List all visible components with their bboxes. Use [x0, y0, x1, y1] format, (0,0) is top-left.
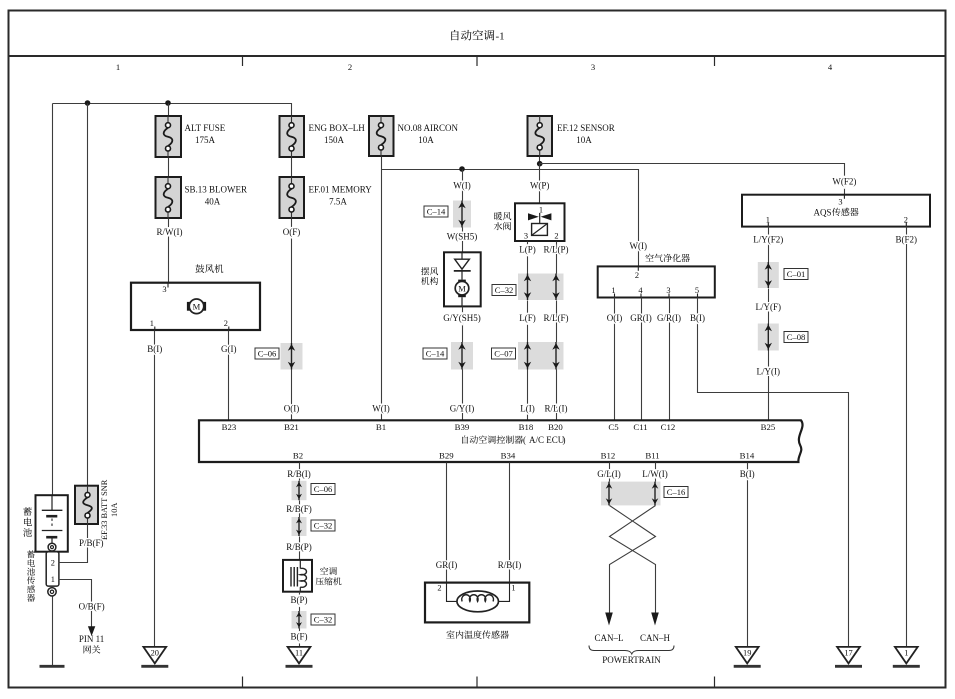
svg-text:B34: B34 [501, 450, 516, 460]
wire pin5 to ground 17, net B(I) [698, 298, 849, 647]
label net W(F2) [832, 177, 856, 187]
svg-text:L/W(I): L/W(I) [642, 469, 667, 479]
title separator line [9, 55, 946, 57]
svg-text:B(I): B(I) [740, 469, 755, 479]
ECU top pin B20 [548, 422, 563, 432]
wire: battery feed vertical (left) [52, 104, 54, 496]
svg-text:O/B(F): O/B(F) [79, 601, 105, 611]
wire ECU B29 to temp sensor, net GR(I) [446, 463, 448, 583]
label net B(F2) [896, 235, 918, 245]
wire sensor pin 1 to gateway, net O/B(F) [59, 580, 92, 627]
label box C-32 [311, 520, 335, 531]
wire C-08 to ECU pin B25, net L/Y(I) [768, 351, 770, 421]
svg-text:R/L(I): R/L(I) [545, 404, 568, 414]
label box C-01 [784, 269, 808, 280]
svg-text:10A: 10A [576, 135, 592, 145]
battery sensor 蓄电池传感器 body [46, 552, 59, 586]
pin 5 air purifier [695, 286, 699, 298]
svg-text:G/Y(I): G/Y(I) [450, 404, 475, 414]
label net L(I) [520, 404, 535, 414]
label net L/Y(F2) [753, 235, 783, 245]
chassis ground bar (battery) [40, 665, 65, 668]
wire ENG BOX-LH to EF.01 MEMORY [291, 158, 293, 178]
svg-text:C–16: C–16 [667, 487, 686, 497]
svg-text:C–08: C–08 [787, 332, 806, 342]
label box C-16 [664, 487, 688, 498]
pin 1 AQS sensor [766, 215, 770, 226]
wire pin1 to ECU C5, net O(I) [614, 298, 616, 421]
svg-text:2: 2 [904, 215, 908, 224]
wire: branch down to ALT FUSE [168, 104, 170, 117]
svg-text:7.5A: 7.5A [329, 197, 347, 207]
label CAN-H [640, 633, 671, 643]
label ALT FUSE 175A [185, 123, 226, 145]
svg-text:3: 3 [666, 286, 670, 295]
svg-text:3: 3 [162, 285, 166, 294]
label net L/Y(I) [757, 366, 781, 376]
svg-text:L(F): L(F) [519, 313, 536, 323]
fuse EF.12 SENSOR 10A [528, 116, 553, 156]
svg-text:R/B(I): R/B(I) [287, 469, 311, 479]
svg-text:-1: -1 [496, 31, 505, 43]
junction dot swing mechanism branch [459, 166, 465, 172]
connector C-06 (blower circuit) [281, 343, 303, 370]
connector C-32 (compressor upper) [292, 517, 307, 536]
label 蓄电池 (vertical) [23, 507, 32, 537]
ECU top pin B23 [222, 422, 237, 432]
svg-text:W(SH5): W(SH5) [447, 232, 478, 242]
svg-text:B14: B14 [740, 450, 755, 460]
svg-text:ALT FUSE: ALT FUSE [185, 123, 226, 133]
svg-text:W(I): W(I) [453, 180, 471, 190]
label net W(P) [530, 180, 550, 190]
svg-text:POWERTRAIN: POWERTRAIN [602, 655, 661, 665]
ECU top pin B21 [284, 422, 299, 432]
svg-text:L(I): L(I) [520, 404, 535, 414]
pin 3 air purifier [666, 286, 670, 298]
label net G/Y(SH5) [443, 313, 481, 323]
temp sensor pin 1 [511, 583, 515, 592]
svg-text:B(F2): B(F2) [896, 235, 918, 245]
label NO.08 AIRCON 10A [398, 123, 459, 145]
label POWERTRAIN [602, 655, 661, 665]
label box C-14 lower [423, 348, 447, 359]
ECU bottom pin B29 [439, 450, 454, 460]
svg-text:B20: B20 [548, 422, 563, 432]
thermistor symbol (ellipse with coil) [457, 591, 499, 612]
connector C-01 [758, 262, 779, 288]
wire bus to AQS sensor, net W(F2) [540, 164, 845, 195]
wire valve pin2 to C-32, net R/L(P) [556, 242, 558, 274]
label net L/W(I) [642, 469, 667, 479]
svg-text:B18: B18 [519, 422, 534, 432]
wire blower pin2 to ECU B23, net G(I) [228, 331, 230, 421]
label ENG BOX-LH 150A [309, 123, 366, 145]
svg-text:R/B(P): R/B(P) [286, 542, 312, 552]
wire to C-07, net L(F) [527, 301, 529, 343]
svg-text:ENG BOX–LH: ENG BOX–LH [309, 123, 366, 133]
connector C-06 (compressor) [292, 481, 307, 500]
ECU bottom pin B2 [293, 450, 303, 460]
fuse ALT FUSE 175A [156, 116, 182, 157]
svg-text:O(F): O(F) [283, 227, 301, 237]
label net R/W(I) [157, 227, 183, 237]
svg-text:P/B(F): P/B(F) [79, 538, 104, 548]
wire ECU B11 to C-16, net L/W(I) [655, 463, 657, 482]
ECU bottom pin B12 [601, 450, 616, 460]
label net L(P) [519, 244, 536, 254]
connector C-14 lower [451, 342, 473, 370]
label net R/B(I) [287, 469, 311, 479]
connector C-14 (swing mechanism) [453, 201, 471, 228]
svg-text:C–14: C–14 [426, 348, 445, 358]
wire C-14 to swing mechanism, net W(SH5) [462, 228, 464, 253]
label net R/B(P) [286, 542, 312, 552]
svg-text:R/L(F): R/L(F) [543, 313, 568, 323]
svg-text:G/L(I): G/L(I) [597, 469, 621, 479]
motor M blower [187, 299, 206, 314]
ECU top pin B39 [455, 422, 470, 432]
svg-text:B2: B2 [293, 450, 303, 460]
label net R/L(F) [543, 313, 568, 323]
label net G/Y(I) [450, 404, 475, 414]
ECU bottom pin B11 [645, 450, 659, 460]
wire pin3 to ECU C12, net G/R(I) [669, 298, 671, 421]
svg-text:EF.01 MEMORY: EF.01 MEMORY [309, 185, 373, 195]
label 空调压缩机 [316, 567, 342, 585]
fuse SB.13 BLOWER 40A [156, 177, 182, 218]
component 暖风水阀 heater water valve box [515, 203, 565, 241]
wire C-14 to ECU pin B39, net G/Y(I) [462, 370, 464, 421]
connector C-08 [758, 324, 779, 351]
svg-text:G/Y(SH5): G/Y(SH5) [443, 313, 481, 323]
wire EF.12 SENSOR to junction [539, 157, 541, 164]
ground 19 [734, 647, 761, 666]
label net W(I) air purifier feed [630, 241, 648, 251]
wire down to connector C-14, net W(I) [462, 170, 464, 201]
svg-text:2: 2 [437, 583, 441, 592]
label net B(I) [740, 469, 755, 479]
label net G/L(I) [597, 469, 621, 479]
ground 1 [893, 647, 920, 666]
label net B(I) [690, 313, 705, 323]
wire EF.33 to sensor pin 2, net P/B(F) [59, 525, 88, 563]
valve symbol (bowtie) [528, 213, 551, 224]
svg-text:10A: 10A [110, 503, 119, 517]
svg-text:R/B(F): R/B(F) [286, 504, 312, 514]
svg-text:C–32: C–32 [495, 285, 514, 295]
ground 17 [835, 647, 862, 666]
ECU bottom pin B34 [501, 450, 516, 460]
label 摆风机构 [421, 267, 438, 285]
svg-text:B21: B21 [284, 422, 299, 432]
component 室内温度传感器 room temperature sensor box [425, 583, 529, 623]
wire branch bus to air purifier [382, 170, 639, 267]
svg-text:O(I): O(I) [607, 313, 623, 323]
pin 2 AQS sensor [904, 215, 908, 226]
column number 1 [116, 62, 120, 72]
svg-text:GR(I): GR(I) [436, 560, 458, 570]
svg-text:AQS: AQS [814, 207, 832, 217]
wire C-07 to ECU pin B20, net R/L(I) [556, 370, 558, 421]
svg-text:1: 1 [539, 205, 543, 214]
label box C-07 [492, 348, 516, 359]
svg-text:C–32: C–32 [314, 520, 333, 530]
arrow to PIN 11 gateway [88, 626, 95, 636]
label 暖风水阀 [494, 212, 511, 230]
battery terminal (top of sensor) [48, 543, 56, 551]
title 自动空调-1 [451, 30, 504, 43]
wire NO.08 AIRCON down to ECU pin B1, net W(I) [381, 157, 383, 421]
column number 2 [348, 62, 352, 72]
battery sensor pin 1 [51, 575, 55, 584]
svg-text:): ) [563, 435, 566, 445]
label net R/B(F) [286, 504, 312, 514]
label EF.12 SENSOR 10A [557, 123, 615, 145]
wire swing mechanism to C-14 lower, net G/Y(SH5) [462, 307, 464, 343]
svg-text:O(I): O(I) [284, 404, 300, 414]
label net W(SH5) [447, 232, 478, 242]
brace under CAN labels [589, 646, 674, 655]
pin 1 blower [150, 319, 155, 330]
svg-text:3: 3 [838, 197, 842, 206]
svg-text:1: 1 [611, 286, 615, 295]
svg-text:G(I): G(I) [221, 344, 237, 354]
svg-text:5: 5 [695, 286, 699, 295]
ECU top pin B25 [761, 422, 776, 432]
svg-text:C5: C5 [608, 422, 619, 432]
label box C-14 [424, 206, 448, 217]
label net O(I) [607, 313, 623, 323]
motor M inside swing mechanism [455, 280, 469, 307]
fuse ENG BOX-LH 150A [280, 116, 305, 157]
svg-text:4: 4 [828, 62, 833, 72]
label net P/B(F) [79, 538, 104, 548]
component 摆风机构 swing mechanism box [444, 252, 481, 306]
label PIN 11 网关 [79, 634, 104, 654]
wire AQS pin1 to C-01, net L/Y(F2) [768, 227, 770, 263]
connector C-16 [601, 482, 661, 506]
svg-text:1: 1 [51, 575, 55, 584]
svg-text:B(I): B(I) [690, 313, 705, 323]
svg-text:19: 19 [743, 649, 751, 658]
label SB.13 BLOWER 40A [185, 185, 248, 207]
wire ECU B2 to C-06, net R/B(I) [299, 463, 301, 481]
svg-text:B11: B11 [645, 450, 659, 460]
junction dot at ALT FUSE branch [165, 100, 171, 106]
arrow CAN-H [651, 613, 659, 626]
label net L/Y(F) [756, 302, 782, 312]
ECU top pin C12 [661, 422, 676, 432]
wire C-01 to C-08, net L/Y(F) [768, 289, 770, 324]
svg-text:M: M [193, 302, 201, 312]
label 鼓风机 blower [195, 264, 223, 273]
label net R/L(I) [545, 404, 568, 414]
svg-text:150A: 150A [324, 135, 345, 145]
ECU top pin C5 [608, 422, 619, 432]
svg-text:CAN–L: CAN–L [595, 633, 624, 643]
compressor clutch symbol [291, 560, 306, 592]
svg-text:2: 2 [554, 232, 558, 241]
wire: branch down to EF.33 fuse [87, 104, 89, 486]
svg-text:C12: C12 [661, 422, 676, 432]
junction dot at battery sensor fuse branch [85, 100, 91, 106]
wire SB.13 BLOWER to blower motor, net R/W(I) [168, 219, 170, 283]
component 空调压缩机 A/C compressor box [283, 560, 312, 592]
svg-text:GR(I): GR(I) [630, 313, 652, 323]
pin 3 AQS sensor [838, 195, 844, 207]
label box C-08 [784, 332, 808, 343]
wire blower pin1 to ground 20, net B(I) [154, 331, 156, 647]
connector C-32 (compressor lower) [292, 611, 307, 629]
svg-text:EF.33 BATT SNR: EF.33 BATT SNR [100, 479, 109, 540]
wire EF.01 MEMORY down to connector C-06, net O(F) [291, 219, 293, 344]
wire down to heater valve, net W(P) [539, 164, 541, 204]
svg-text:B(P): B(P) [290, 595, 307, 605]
label net W(I) at B1 [372, 404, 390, 414]
svg-text:PIN 11: PIN 11 [79, 634, 104, 644]
component AQS传感器 AQS sensor box [742, 195, 930, 227]
component blower motor box [131, 283, 260, 330]
wire C-32 to ground 11, net B(F) [299, 629, 301, 647]
column number 3 [591, 62, 595, 72]
label net R/B(I) [498, 560, 522, 570]
svg-text:3: 3 [591, 62, 595, 72]
svg-text:G/R(I): G/R(I) [657, 313, 681, 323]
label net W(I) [453, 180, 471, 190]
pin 2 heater valve [554, 232, 558, 241]
fuse EF.01 MEMORY 7.5A [280, 177, 305, 218]
svg-text:C–32: C–32 [314, 614, 333, 624]
svg-text:B(F): B(F) [290, 632, 307, 642]
svg-text:SB.13 BLOWER: SB.13 BLOWER [185, 185, 248, 195]
label net O(F) [283, 227, 301, 237]
label net GR(I) [630, 313, 652, 323]
label 自动空调控制器（A/C ECU） [462, 435, 565, 445]
wire compressor to C-32, net B(P) [299, 592, 301, 612]
pin 1 air purifier [611, 286, 615, 298]
wire ECU B34 to temp sensor, net R/B(I) [509, 463, 511, 583]
wire valve pin3 to C-32, net L(P) [527, 242, 529, 274]
pin 3 blower [162, 283, 168, 294]
svg-text:1: 1 [511, 583, 515, 592]
wire C-06 to ECU pin B21, net O(I) [291, 370, 293, 421]
battery cell symbol [42, 495, 63, 543]
svg-text:11: 11 [295, 649, 303, 658]
diode inside swing mechanism [454, 252, 471, 279]
label net G/R(I) [657, 313, 681, 323]
svg-text:R/B(I): R/B(I) [498, 560, 522, 570]
svg-text:175A: 175A [195, 135, 216, 145]
svg-text:A/C ECU: A/C ECU [529, 435, 565, 445]
svg-text:B23: B23 [222, 422, 237, 432]
svg-text:L/Y(F2): L/Y(F2) [753, 235, 783, 245]
svg-text:R/W(I): R/W(I) [157, 227, 183, 237]
svg-text:L/Y(I): L/Y(I) [757, 366, 781, 376]
svg-text:C–14: C–14 [427, 206, 446, 216]
pin 2 blower [224, 319, 229, 330]
wire C-32 to compressor, net R/B(P) [299, 537, 301, 560]
svg-text:C–06: C–06 [258, 348, 277, 358]
label box C-32 [311, 614, 335, 625]
ground 20 [141, 647, 168, 666]
fuse EF.33 BATT SNR 10A [75, 486, 98, 524]
svg-text:1: 1 [116, 62, 120, 72]
svg-text:B(I): B(I) [147, 344, 162, 354]
svg-text:20: 20 [151, 649, 159, 658]
ground 11 [286, 647, 313, 666]
twisted pair wire CAN-H [610, 506, 656, 613]
arrow CAN-L [605, 613, 613, 626]
svg-text:2: 2 [635, 271, 639, 280]
label net B(P) [290, 595, 307, 605]
svg-text:(: ( [523, 435, 526, 445]
label net GR(I) [436, 560, 458, 570]
label net O/B(F) [79, 601, 105, 611]
svg-text:W(F2): W(F2) [832, 177, 856, 187]
connector C-07 [518, 342, 564, 370]
label 室内温度传感器 [446, 630, 508, 638]
label EF.01 MEMORY 7.5A [309, 185, 373, 207]
wire ECU B12 to C-16, net G/L(I) [609, 463, 611, 482]
svg-text:1: 1 [766, 215, 770, 224]
wire ECU B14 to ground 19, net B(I) [747, 463, 749, 647]
temp sensor pin 2 [437, 583, 441, 592]
label box C-32 [492, 285, 516, 296]
svg-text:B29: B29 [439, 450, 454, 460]
fuse NO.08 AIRCON 10A [369, 116, 394, 156]
pin 4 air purifier [638, 286, 643, 298]
label CAN-L [595, 633, 624, 643]
svg-text:2: 2 [51, 559, 55, 568]
junction dot heater valve / AQS branch [537, 161, 543, 167]
label net O(I) [284, 404, 300, 414]
label net L(F) [519, 313, 536, 323]
svg-text:M: M [458, 283, 466, 293]
svg-text:R/L(P): R/L(P) [543, 244, 568, 254]
battery sensor bottom terminal [48, 588, 56, 596]
component air purifier box [598, 266, 715, 297]
svg-text:B1: B1 [376, 422, 386, 432]
svg-text:B39: B39 [455, 422, 470, 432]
svg-text:10A: 10A [418, 135, 434, 145]
label 空气净化器 air purifier [645, 254, 689, 262]
pin 2 air purifier [635, 266, 639, 280]
column tick marks top [243, 56, 715, 66]
pin 3 heater valve [524, 232, 528, 241]
svg-text:C–07: C–07 [494, 348, 513, 358]
ECU top pin C11 [633, 422, 647, 432]
wire pin4 to ECU C11, net GR(I) [641, 298, 643, 421]
svg-text:B12: B12 [601, 450, 616, 460]
svg-text:L(P): L(P) [519, 244, 536, 254]
wire ALT FUSE to SB.13 BLOWER [168, 158, 170, 178]
label box C-06 [255, 348, 279, 359]
battery 蓄电池 box [36, 495, 68, 552]
column tick marks bottom [243, 677, 715, 688]
wire C-06 to C-32, net R/B(F) [299, 501, 301, 518]
label EF.33 BATT SNR 10A (rotated) [100, 479, 119, 540]
svg-text:40A: 40A [205, 197, 221, 207]
svg-text:B25: B25 [761, 422, 776, 432]
svg-text:W(I): W(I) [372, 404, 390, 414]
svg-text:2: 2 [224, 319, 228, 328]
label net B(I) [147, 344, 162, 354]
label net B(F) [290, 632, 307, 642]
A/C ECU 自动空调控制器 box [199, 420, 803, 462]
solenoid box with diagonal inside heater valve [532, 224, 548, 236]
svg-text:1: 1 [904, 649, 908, 658]
